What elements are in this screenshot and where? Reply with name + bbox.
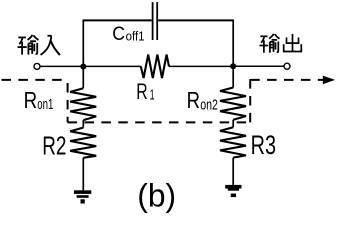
input terminal circle xyxy=(34,63,40,69)
wire R1 to right node xyxy=(169,65,233,67)
wire left vertical from rail to node xyxy=(82,20,84,67)
dashed signal path: right vertical xyxy=(249,79,251,122)
label Ron2 xyxy=(187,87,218,114)
svg-text:on1: on1 xyxy=(37,96,53,113)
wire R2 to ground xyxy=(82,158,84,191)
wire input terminal to left node xyxy=(40,65,83,67)
入 char xyxy=(41,36,60,55)
resistor R3 xyxy=(220,127,246,157)
wire Ron2 to R3 xyxy=(232,120,234,127)
dashed signal path: bottom horizontal xyxy=(68,121,251,123)
svg-text:C: C xyxy=(112,23,125,45)
wire R3 to ground xyxy=(232,158,234,185)
resistor R1 xyxy=(141,55,169,78)
输 char xyxy=(260,34,280,53)
node left junction xyxy=(80,64,86,70)
resistor Ron2 xyxy=(220,88,246,120)
dashed signal path: right exit horizontal xyxy=(250,79,323,81)
arrowhead xyxy=(323,76,335,85)
wire left node down to Ron1 xyxy=(82,67,84,89)
wire right node down to Ron2 xyxy=(232,66,234,87)
wire right vertical from rail to node xyxy=(232,20,234,67)
label input 输入 xyxy=(18,35,60,55)
label Ron1 xyxy=(24,87,54,113)
svg-text:off1: off1 xyxy=(126,28,145,43)
node right junction xyxy=(230,63,236,69)
label output 输出 xyxy=(260,34,302,53)
resistor Ron1 xyxy=(70,88,96,120)
capacitor Coff1 xyxy=(153,2,158,40)
wire right node to output terminal xyxy=(233,65,283,67)
svg-text:R: R xyxy=(24,87,38,113)
ground left xyxy=(74,190,91,203)
wire top rail right segment xyxy=(158,19,233,21)
svg-text:1: 1 xyxy=(150,87,155,104)
wire Ron1 to R2 xyxy=(82,120,84,128)
label Coff1 xyxy=(112,23,144,45)
svg-text:R2: R2 xyxy=(42,131,66,161)
wire left node to R1 xyxy=(83,65,141,67)
output terminal circle xyxy=(284,63,290,69)
出 char xyxy=(284,34,302,52)
ground right xyxy=(225,185,241,197)
svg-text:R: R xyxy=(187,87,200,113)
svg-text:(b): (b) xyxy=(137,178,176,214)
svg-text:R3: R3 xyxy=(251,130,276,160)
dashed signal path: left entry horizontal xyxy=(2,79,68,81)
svg-text:R: R xyxy=(136,79,147,104)
svg-text:on2: on2 xyxy=(200,97,218,114)
dashed signal path: left vertical xyxy=(67,83,69,122)
resistor R2 xyxy=(70,128,96,158)
输 char xyxy=(18,35,39,55)
wire top rail left segment xyxy=(83,19,151,21)
label R1 xyxy=(136,79,154,104)
